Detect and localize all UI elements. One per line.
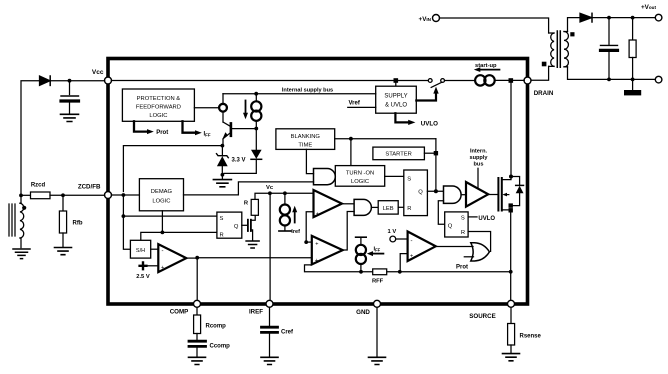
wire Vc rail xyxy=(255,193,314,199)
resistor RFF xyxy=(373,269,387,275)
terminal +Vout xyxy=(655,14,662,21)
node Cout top xyxy=(607,16,611,20)
wire OR to FF3 R xyxy=(468,232,491,252)
svg-text:Rsense: Rsense xyxy=(520,333,542,339)
T1 secondary phase dot xyxy=(570,32,574,36)
ground under Rsense xyxy=(503,354,520,361)
wire clamp to ZCD node xyxy=(123,146,222,192)
svg-text:Internal supply bus: Internal supply bus xyxy=(282,87,333,93)
svg-text:LOGIC: LOGIC xyxy=(149,113,167,119)
svg-text:Vcc: Vcc xyxy=(92,69,104,76)
arrow UVLO output xyxy=(395,113,408,122)
block LEB xyxy=(378,201,398,214)
switch SW1 (start-up) xyxy=(428,79,432,83)
wire Vcc supply loop left xyxy=(21,81,40,195)
node Q/starter xyxy=(434,189,438,193)
wire UVLO label xyxy=(468,216,477,218)
wire FF1 Q to M1 gate xyxy=(242,224,247,226)
wire SOURCE pin down xyxy=(510,307,512,323)
node source/RFF rail xyxy=(509,270,513,274)
pin DRAIN xyxy=(524,77,531,84)
node aux winding junction xyxy=(19,194,23,198)
node bus/current source xyxy=(254,92,258,96)
latch FF3 (UVLO) xyxy=(445,212,468,237)
svg-text:R: R xyxy=(461,230,465,236)
svg-text:Rfb: Rfb xyxy=(73,221,83,227)
wire AND2 to LEB xyxy=(371,206,378,208)
svg-text:R: R xyxy=(220,233,224,239)
svg-text:GND: GND xyxy=(356,309,370,316)
wire DEMAG out to AND1 xyxy=(184,182,314,195)
wire GND pin down xyxy=(376,307,378,356)
svg-text:Cref: Cref xyxy=(281,329,294,335)
zener DZ 3.3V xyxy=(221,146,223,156)
current source Iref xyxy=(284,193,286,204)
arrow Iref up xyxy=(294,212,296,223)
wire output rail xyxy=(592,17,655,19)
svg-text:supply: supply xyxy=(469,155,488,161)
node drain xyxy=(509,175,513,179)
svg-text:S/H: S/H xyxy=(136,248,145,254)
svg-text:+: + xyxy=(316,211,319,217)
wire diode to Vcc pin xyxy=(51,80,105,82)
node current source bottom xyxy=(254,127,258,131)
block S/H xyxy=(130,240,150,258)
wire COMP pin down xyxy=(196,307,198,315)
wire starter column xyxy=(435,139,437,192)
svg-text:IFF: IFF xyxy=(204,132,211,138)
wire Vcc bus xyxy=(111,80,428,82)
wire AND3 to driver xyxy=(461,194,466,196)
diode D2 (output rectifier) xyxy=(580,13,592,22)
latch FF1 (demag S/R) xyxy=(217,212,242,238)
node Vcc cap junction xyxy=(68,79,72,83)
svg-text:SOURCE: SOURCE xyxy=(469,313,495,320)
pin Vcc xyxy=(105,77,112,84)
svg-text:-: - xyxy=(162,249,164,255)
svg-text:STARTER: STARTER xyxy=(385,152,412,158)
node EA output / COMP xyxy=(186,257,197,259)
wire EA out to CO2 xyxy=(197,257,312,259)
wire primary bottom to DRAIN xyxy=(531,66,549,80)
svg-text:IFF: IFF xyxy=(374,246,381,252)
resistor R (Vc pull-up) xyxy=(251,199,258,215)
wire secondary top xyxy=(568,18,581,32)
wire protection box to clamp node xyxy=(194,107,219,109)
svg-text:Vref: Vref xyxy=(349,101,361,107)
wire S line xyxy=(123,215,216,217)
svg-text:bus: bus xyxy=(474,162,484,168)
node 2.5V reference cross xyxy=(140,262,147,269)
wire VIN to transformer primary xyxy=(439,18,548,33)
node Q1 emitter xyxy=(221,144,225,148)
pin ZCD/FB xyxy=(105,192,112,199)
node Cout bottom xyxy=(607,78,611,82)
comparator CO3 (1V OCP) xyxy=(408,232,436,262)
resistor Rsense xyxy=(508,324,515,346)
pin SOURCE xyxy=(508,300,515,307)
current source start-up xyxy=(475,75,485,85)
svg-text:+: + xyxy=(161,265,164,271)
svg-text:DRAIN: DRAIN xyxy=(534,90,554,97)
gate AND1 (demag/blanking) xyxy=(314,169,336,185)
svg-text:ZCD/FB: ZCD/FB xyxy=(78,184,101,191)
terminal +VIN xyxy=(433,15,440,22)
resistor Rout xyxy=(632,18,634,40)
transistor Q1 (3.3V clamp) xyxy=(222,112,224,122)
wire CO1 output xyxy=(342,203,354,205)
aux winding core xyxy=(9,204,15,236)
gate OR1 (prot) xyxy=(471,243,490,261)
transformer T1 primary winding xyxy=(549,33,554,66)
wire supply tap to SUPPLY box xyxy=(395,83,397,86)
ground under Ccomp xyxy=(189,357,206,364)
svg-text:Rcomp: Rcomp xyxy=(206,324,227,330)
capacitor Ccomp xyxy=(189,341,206,346)
pin IREF xyxy=(266,300,273,307)
node 1V reference xyxy=(390,236,396,242)
wire turn-on to latch S xyxy=(385,175,404,177)
wire blanking to AND1 xyxy=(306,149,313,173)
wire S/H to EA xyxy=(151,248,159,250)
svg-text:TIME: TIME xyxy=(298,142,312,148)
resistor Rzcd xyxy=(21,194,31,196)
wire UVLO latch Q to AND3 xyxy=(438,201,444,225)
svg-text:RFF: RFF xyxy=(372,279,384,285)
svg-text:Q: Q xyxy=(418,190,423,196)
transformer aux winding xyxy=(20,195,22,202)
node Vc/IREF xyxy=(268,191,272,195)
svg-text:TURN -ON: TURN -ON xyxy=(346,171,374,177)
output ground bar xyxy=(632,79,634,89)
ground under aux winding xyxy=(13,249,30,259)
driver DRV xyxy=(466,182,488,207)
svg-text:UVLO: UVLO xyxy=(421,120,438,127)
node Rout bottom xyxy=(631,78,635,82)
wire Vc to IREF pin xyxy=(269,193,271,300)
node Rzcd/Rfb junction xyxy=(61,193,65,197)
node source/diode xyxy=(509,203,513,207)
wire internal supply bus xyxy=(223,93,376,95)
resistor Rcomp xyxy=(194,315,201,334)
svg-text:IREF: IREF xyxy=(249,308,263,315)
arrow Prot output xyxy=(134,121,148,131)
node CO3 rail xyxy=(398,270,402,274)
arrow IFF output xyxy=(183,121,196,132)
svg-text:Prot: Prot xyxy=(456,264,468,270)
gate AND2 xyxy=(354,199,371,215)
T1 primary phase dot xyxy=(542,62,547,67)
svg-text:BLANKING: BLANKING xyxy=(291,134,321,140)
svg-text:Rzcd: Rzcd xyxy=(31,182,46,188)
diode D4 (body) xyxy=(516,184,524,186)
node zener anode xyxy=(221,173,225,177)
resistor Rfb xyxy=(62,195,64,211)
block DEMAG LOGIC xyxy=(139,179,183,211)
pin GND xyxy=(374,300,381,307)
ground under Cvcc xyxy=(61,114,79,121)
node Vc/Iref src xyxy=(283,191,287,195)
wire ZCD pin to DEMAG xyxy=(111,194,139,196)
node IFF rail xyxy=(359,270,363,274)
svg-text:R: R xyxy=(407,206,411,212)
diode D3 xyxy=(255,129,257,150)
svg-text:PROTECTION &: PROTECTION & xyxy=(137,96,181,102)
wire M2 source xyxy=(502,210,511,301)
transformer T1 secondary winding xyxy=(564,32,568,67)
node blanking/turn-on xyxy=(349,137,353,141)
wire switch to start-up source xyxy=(445,80,476,82)
wire LEB to latch R xyxy=(398,206,404,208)
node demag R line xyxy=(161,231,165,235)
terminal output return xyxy=(655,76,662,83)
svg-text:Prot: Prot xyxy=(156,130,168,136)
transistor M1 (small mosfet) xyxy=(247,220,249,231)
current source IC (protection bias) xyxy=(255,96,257,102)
node Rout top xyxy=(631,16,635,20)
wire Prot input stub xyxy=(464,256,473,258)
block TURN-ON LOGIC xyxy=(335,166,384,187)
wire R line to latch-a xyxy=(141,232,217,240)
svg-text:UVLO: UVLO xyxy=(478,216,495,222)
svg-text:DEMAG: DEMAG xyxy=(151,189,173,195)
wire start-up to DRAIN xyxy=(495,79,524,81)
wire output return rail xyxy=(568,67,656,80)
block STARTER xyxy=(373,147,425,160)
gate AND3 xyxy=(444,186,462,203)
svg-text:+Vout: +Vout xyxy=(641,4,657,11)
wire IREF pin down xyxy=(269,307,271,326)
node clamp circle xyxy=(219,104,227,112)
node ZCD internal xyxy=(122,193,126,197)
svg-text:+: + xyxy=(315,241,318,247)
wire blanking output xyxy=(335,138,436,140)
svg-text:& UVLO: & UVLO xyxy=(385,103,407,109)
wire FF2 Q to AND3 xyxy=(427,190,443,192)
wire driver to gate xyxy=(488,194,497,196)
svg-text:LEB: LEB xyxy=(383,206,394,212)
block PROTECTION & FEEDFORWARD LOGIC xyxy=(122,89,194,121)
wire CO3 plus input xyxy=(400,254,407,272)
node CO2 plus xyxy=(304,240,308,244)
svg-text:+VIN: +VIN xyxy=(419,16,432,23)
comparator CO2 (PWM) xyxy=(312,236,343,265)
arrow IFF xyxy=(372,253,384,255)
capacitor Cref xyxy=(262,327,278,332)
block SUPPLY & UVLO xyxy=(376,86,417,113)
comparator CO1 xyxy=(314,190,342,217)
svg-text:Intern.: Intern. xyxy=(470,148,488,154)
svg-text:S: S xyxy=(461,216,465,222)
svg-text:Vc: Vc xyxy=(266,185,274,191)
svg-text:LOGIC: LOGIC xyxy=(152,199,170,205)
wire ZCD node down to S/H xyxy=(123,195,130,249)
svg-text:+: + xyxy=(410,254,413,260)
node drain tap xyxy=(509,78,514,83)
transistor M2 (power mosfet) xyxy=(497,178,499,211)
ground clamp xyxy=(213,180,231,187)
ground under M1 xyxy=(246,241,259,248)
svg-text:1 V: 1 V xyxy=(388,229,397,235)
wire CO1 lower input xyxy=(306,212,313,242)
ground under GND pin xyxy=(369,357,386,364)
svg-text:Q: Q xyxy=(448,223,453,229)
node S line tap xyxy=(122,214,126,218)
wire CO3 out to OR1 xyxy=(436,246,473,248)
node starter tap xyxy=(434,151,438,155)
wire DEMAG bottom xyxy=(161,211,163,233)
svg-text:COMP: COMP xyxy=(170,308,189,315)
node supply tap xyxy=(394,78,399,83)
block BLANKING TIME xyxy=(276,129,335,150)
svg-text:S: S xyxy=(407,176,411,182)
svg-text:3.3 V: 3.3 V xyxy=(232,157,246,163)
svg-text:+: + xyxy=(315,258,318,264)
wire Vref input xyxy=(348,106,376,108)
svg-text:S: S xyxy=(220,216,224,222)
latch FF2 (PWM) xyxy=(404,170,428,216)
svg-text:Q: Q xyxy=(234,224,239,230)
error amp EA xyxy=(158,244,186,272)
wire EA out to COMP pin xyxy=(196,258,198,301)
arrow switch control xyxy=(416,93,436,101)
wire CO2 out to AND2 xyxy=(343,212,354,251)
diode D1 (Vcc rectifier) xyxy=(40,76,51,85)
svg-text:Ccomp: Ccomp xyxy=(210,344,231,350)
svg-text:SUPPLY: SUPPLY xyxy=(384,93,407,99)
svg-text:FEEDFORWARD: FEEDFORWARD xyxy=(136,105,181,111)
svg-text:2.5 V: 2.5 V xyxy=(136,274,150,280)
pin COMP xyxy=(194,300,201,307)
wire RFF rail xyxy=(305,265,511,272)
ground under Rfb xyxy=(55,248,72,255)
IC body U1 (controller) xyxy=(108,59,528,305)
svg-text:LOGIC: LOGIC xyxy=(351,179,369,185)
svg-text:-: - xyxy=(411,239,413,245)
aux winding phase dot xyxy=(22,206,26,210)
ground under Cref xyxy=(261,357,278,364)
transformer T1 core xyxy=(557,31,560,67)
svg-text:Iref: Iref xyxy=(291,229,300,235)
arrow current source IC xyxy=(245,101,247,114)
arrow M2 substrate xyxy=(505,194,509,196)
current source IFF xyxy=(356,236,367,238)
capacitor Cout xyxy=(608,18,610,45)
capacitor Cvcc xyxy=(69,81,71,95)
